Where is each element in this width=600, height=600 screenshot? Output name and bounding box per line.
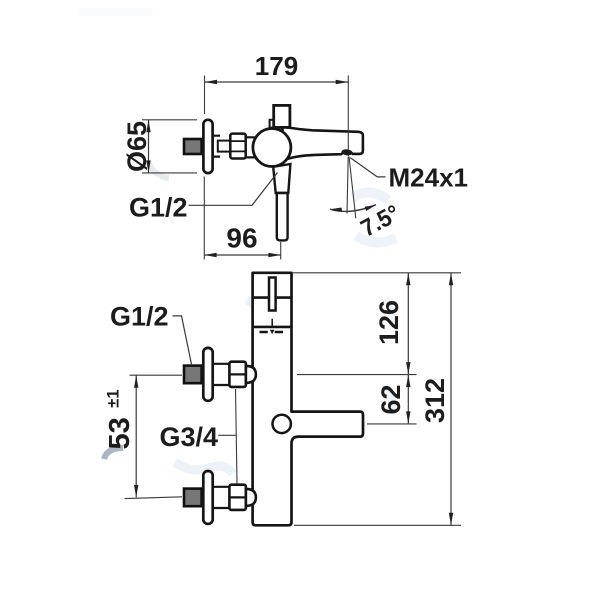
angle 7.5 right radial line bbox=[349, 157, 356, 219]
dimension 312 bottom arrow bbox=[449, 513, 453, 525]
bottom inlet: dome bbox=[246, 489, 256, 506]
svg-text:G3/4: G3/4 bbox=[160, 422, 219, 452]
body circle bbox=[253, 129, 291, 167]
extension line body top bbox=[293, 272, 461, 274]
dimension 312 line bbox=[450, 273, 452, 526]
svg-text:62: 62 bbox=[376, 384, 406, 414]
center mark dashes bbox=[260, 331, 284, 333]
dimension 179 line bbox=[205, 81, 349, 83]
handle rod bbox=[277, 193, 288, 240]
svg-text:96: 96 bbox=[226, 223, 257, 254]
wall connector square G1/2 top drawing bbox=[184, 139, 202, 154]
top inlet: dome bbox=[246, 366, 256, 383]
top inlet: stem bbox=[212, 364, 230, 385]
diverter circle bbox=[273, 415, 291, 433]
dimension 62 top arrow bbox=[406, 375, 410, 387]
knob bbox=[274, 105, 290, 127]
watermark curl near top inlet bottom drawing bbox=[255, 372, 271, 418]
bottom inlet: nut facet line bbox=[229, 496, 246, 498]
dimension O65 line bbox=[148, 120, 150, 173]
watermark dark arc below 53 bbox=[104, 448, 123, 459]
svg-text:G1/2: G1/2 bbox=[129, 192, 188, 222]
svg-text:M24x1: M24x1 bbox=[389, 162, 469, 192]
dimension 96 left extension bbox=[203, 177, 205, 260]
leader G3/4 vertical connecting nuts bbox=[236, 389, 238, 484]
top inlet: nut facet line bbox=[229, 373, 246, 375]
dimension 96 left arrow bbox=[204, 253, 216, 258]
temperature slot bbox=[269, 278, 276, 311]
leader M24x1 bbox=[350, 158, 385, 177]
center mark triangle bbox=[270, 330, 275, 334]
body separation line lower bbox=[253, 326, 292, 329]
dimension 53 bottom arrow bbox=[134, 485, 138, 497]
dimension O65 top tick bbox=[142, 119, 197, 121]
top inlet: nut bbox=[229, 362, 246, 387]
dimension 96 right extension bbox=[280, 242, 282, 260]
svg-text:±1: ±1 bbox=[105, 389, 123, 407]
extension line inlet center bbox=[297, 374, 417, 376]
leader G1/2 top bbox=[189, 173, 278, 206]
leader G1/2 bottom bbox=[173, 316, 192, 365]
dimension 179 right extension line bbox=[347, 76, 349, 157]
angle arc right arrow bbox=[365, 205, 376, 211]
svg-text:53: 53 bbox=[104, 417, 136, 449]
svg-text:312: 312 bbox=[420, 378, 450, 423]
escutcheon flange top drawing bbox=[203, 120, 212, 173]
small center tick bbox=[271, 319, 273, 327]
dimension 126 62 line bbox=[407, 273, 409, 424]
bottom inlet: nut bbox=[229, 485, 246, 510]
aerator dark lens bbox=[341, 149, 353, 156]
handle cone (under body) bbox=[273, 164, 290, 193]
watermark curl around 7.5 area bbox=[352, 192, 396, 242]
dimension 53 top arrow bbox=[134, 375, 138, 387]
dimension 53 line bbox=[135, 375, 137, 497]
nut top drawing bbox=[230, 134, 245, 159]
dimension O65 top arrow bbox=[146, 120, 150, 132]
extension line arm center bbox=[367, 423, 417, 425]
dimension 179 right extension line over spout bbox=[347, 130, 349, 150]
dimension O65 bottom arrow bbox=[146, 160, 150, 172]
dimension 312 top arrow bbox=[449, 273, 453, 285]
dimension 53 bottom tick bbox=[125, 497, 183, 499]
angle arc left arrow bbox=[330, 208, 342, 212]
dimension 96 right arrow bbox=[268, 253, 280, 258]
stem between flange and nut bbox=[211, 136, 220, 157]
knob step bbox=[270, 120, 276, 128]
dimension 179 left extension line bbox=[204, 76, 206, 115]
dimension 96 line bbox=[204, 254, 280, 256]
dimension 126 top arrow bbox=[406, 273, 410, 285]
dimension 62 bottom arrow bbox=[406, 411, 410, 423]
svg-text:G1/2: G1/2 bbox=[110, 301, 169, 331]
watermark curl near top G1/2 bbox=[149, 164, 169, 178]
dimension O65 bottom tick bbox=[142, 172, 197, 174]
extension line body bottom bbox=[294, 524, 461, 526]
neck rect bbox=[218, 141, 231, 152]
leader G3/4 horizontal bbox=[218, 434, 236, 436]
bottom inlet: wall square bbox=[184, 489, 202, 507]
nut facet lines bbox=[230, 141, 245, 151]
angle 7.5 arc bbox=[330, 205, 376, 212]
dimension 179 left arrow bbox=[205, 80, 217, 85]
watermark curl near G3/4 bbox=[175, 462, 233, 474]
top inlet: wall square bbox=[184, 366, 202, 384]
dimension 53 top tick bbox=[130, 374, 183, 376]
svg-text:126: 126 bbox=[374, 300, 404, 345]
body outline bottom drawing bbox=[253, 273, 363, 526]
dimension 179 right arrow bbox=[336, 80, 348, 85]
top inlet: escutcheon flange bbox=[203, 348, 212, 401]
body separation line upper bbox=[253, 296, 292, 299]
svg-text:179: 179 bbox=[255, 51, 298, 81]
spout bbox=[282, 127, 363, 159]
faint top band artifact bbox=[78, 8, 153, 16]
watermark curl near 126 62 bbox=[384, 300, 395, 414]
angle 7.5 left radial line bbox=[347, 157, 348, 214]
bottom inlet: stem bbox=[212, 487, 230, 508]
collar to body bbox=[246, 137, 255, 157]
svg-text:Ø65: Ø65 bbox=[122, 121, 152, 172]
dimension 126 bottom arrow bbox=[406, 362, 410, 374]
bottom inlet: escutcheon flange bbox=[203, 471, 212, 524]
watermark curl near body top bottom drawing bbox=[247, 300, 271, 348]
